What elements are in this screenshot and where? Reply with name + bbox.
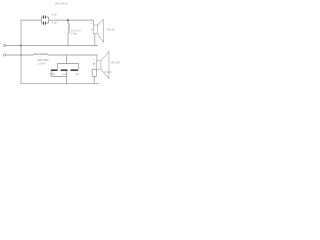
svg-text:PW 80 Ki: PW 80 Ki [55,1,68,5]
svg-text:-: - [0,52,1,55]
svg-text:+: + [90,23,92,26]
svg-text:+: + [0,42,2,45]
svg-text:sRs 100: sRs 100 [111,62,120,65]
svg-text:4 µF: 4 µF [52,22,58,25]
svg-text:1,5Ω: 1,5Ω [50,73,55,76]
svg-text:1Ω: 1Ω [76,73,79,76]
svg-text:C bip: C bip [71,32,77,35]
svg-text:1.5 mH: 1.5 mH [37,63,45,66]
svg-text:+: + [93,58,95,61]
svg-text:4 µF: 4 µF [52,13,58,16]
svg-text:sRs 20: sRs 20 [107,29,115,32]
svg-text:4 Ω br: 4 Ω br [105,71,112,74]
svg-text:2,2Ω: 2,2Ω [62,73,67,76]
